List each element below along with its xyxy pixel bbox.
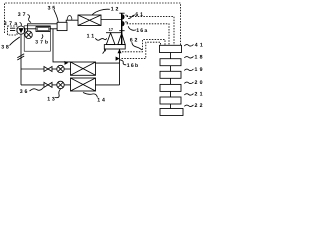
wire dashed control line from 37a to controller 41 [5,3,181,45]
mark below compressor base [103,50,106,54]
controller 41 [160,45,182,52]
svg-text:36: 36 [20,89,29,95]
svg-text:37: 37 [18,12,28,18]
leader of 62 [132,42,142,50]
svg-text:38: 38 [1,44,10,50]
wire dashed sensor 62 to 41 [122,40,165,52]
pigtail loop on condenser pipe [67,16,72,21]
discharge pipe with sensor bar [121,13,123,44]
compressor 11 [106,32,122,34]
expansion valve 36 (row2) [44,82,52,87]
svg-text:62: 62 [130,37,139,43]
svg-text:37a: 37a [4,21,20,27]
wire row2 outlet [96,84,120,86]
wire dashed 16b to 41 [122,42,161,58]
wire 41-18 [170,53,172,59]
fan (circle-X) of heater unit [25,31,32,38]
box 21 [160,97,181,104]
svg-text:16b: 16b [127,63,140,69]
wire liquid line tank to evaporator 1 [53,29,71,62]
leader of 12 [92,9,110,14]
wire row2 left [21,84,44,86]
sensor 61 [122,14,124,19]
leader of 36 [30,88,44,92]
box 37a (dashed, with level lines) [8,26,18,35]
svg-text:61: 61 [135,12,144,18]
leader of 14 [83,93,98,98]
box 20 [160,84,181,91]
pipe break hatch [17,54,24,60]
wire dashed 16a to 41 [127,24,169,46]
wire pipe heater 37b to tank 35 [50,28,57,30]
pump 38 [17,26,25,34]
svg-text:37b: 37b [35,39,50,45]
heater core 37b [36,27,50,32]
leader of 16b [120,60,126,65]
wire row2 into evaporator [64,84,70,86]
condenser 12 [78,15,101,26]
box 19 [160,71,181,78]
wire row1 left [21,68,44,70]
svg-text:11: 11 [87,34,96,40]
leader of 13 [55,89,61,98]
svg-text:18: 18 [195,54,205,60]
leader of 37b [42,35,43,40]
leader of 61 [128,15,135,19]
wire row1 valve to solenoid [52,68,57,70]
svg-text:22: 22 [195,103,205,109]
wire pipe fan top to tank 35 [28,24,57,31]
wire dashed 61 to 41 [127,17,174,46]
svg-text:41: 41 [195,43,205,49]
svg-text:19: 19 [195,67,205,73]
svg-text:17: 17 [109,27,114,32]
wire 18-19 [170,66,172,72]
receiver tank 35 [57,22,67,30]
expansion valve (row1) [44,67,52,72]
leader of 35 [54,10,58,22]
leader of 16a [128,26,136,30]
evaporator (row1) [71,62,96,75]
wire left distribution vertical [20,34,22,85]
leader of 11 [95,38,106,40]
wire condenser to discharge pipe [101,19,122,21]
wire row1 into evaporator [64,68,70,70]
wire 19-20 [170,78,172,84]
heater unit enclosure [24,26,50,51]
wire 20-21 [170,91,172,97]
svg-text:21: 21 [195,92,205,98]
sensor 16a [122,21,124,26]
svg-text:12: 12 [111,7,120,13]
leader of 37a [20,22,22,26]
evaporator 14 (row2) [71,78,96,91]
box 18 [160,59,181,66]
wire pipe pump to heater 37b [25,28,36,30]
svg-text:35: 35 [48,6,57,12]
flow arrow on liquid line [65,61,69,65]
svg-text:20: 20 [195,80,205,86]
wire suction vertical [119,49,121,85]
wire row2 valve to solenoid [52,84,57,86]
svg-text:14: 14 [97,98,106,104]
sensor 16b [116,57,120,61]
wire tank top to condenser [66,20,78,22]
leader brace of 37 [28,15,32,23]
wire row1 outlet [96,62,120,64]
solenoid 13 (circle-X) row2 [57,81,64,88]
box 22 [160,109,183,116]
leader of 38 [10,37,20,46]
suction arrow into compressor [118,49,122,53]
wire 21-22 [170,104,172,109]
svg-text:16a: 16a [136,28,148,34]
solenoid (circle-X) row1 [57,65,64,72]
